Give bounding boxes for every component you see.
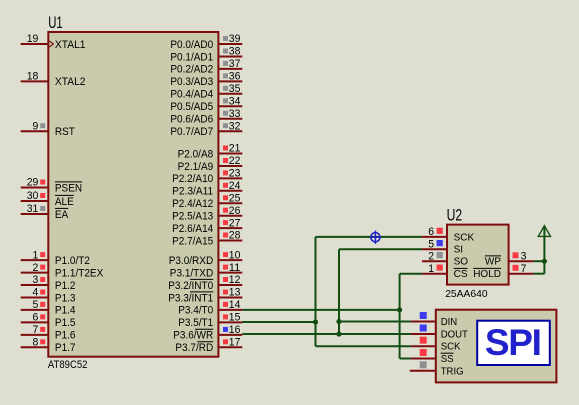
svg-text:P3.6/WR: P3.6/WR [173, 330, 213, 342]
svg-text:9: 9 [33, 120, 39, 132]
label U2 value 25AA640 [445, 289, 488, 300]
svg-text:P2.1/A9: P2.1/A9 [178, 161, 214, 173]
svg-text:24: 24 [229, 180, 241, 192]
power symbol VCC (arrow) [538, 226, 550, 237]
svg-text:XTAL2: XTAL2 [55, 76, 86, 88]
pin 38 P0.1/AD1 (U1 right) [170, 46, 242, 64]
wire to SPI SCK [316, 345, 411, 347]
pin 32 P0.7/AD7 (U1 right) [170, 120, 242, 138]
svg-text:39: 39 [229, 33, 241, 45]
svg-text:P0.2/AD2: P0.2/AD2 [170, 64, 213, 76]
junction dot net SCK at pin15 row [313, 319, 318, 324]
pin 3 P1.2 (U1 left) [21, 274, 76, 292]
svg-text:EA: EA [55, 209, 69, 221]
svg-text:P2.2/A10: P2.2/A10 [172, 173, 213, 185]
wire to U2 pin6 SCK [316, 236, 423, 238]
svg-text:P0.1/AD1: P0.1/AD1 [170, 51, 213, 63]
pin 6 SCK (U2 left) [422, 226, 474, 243]
svg-text:SCK: SCK [454, 232, 475, 243]
svg-text:4: 4 [33, 287, 39, 299]
svg-text:29: 29 [27, 177, 39, 189]
pin 3 WP (U2 right) [485, 250, 534, 267]
pin 17 P3.7/RD (U1 right) [175, 337, 242, 355]
pin 13 P3.3/INT1 (U1 right) [168, 287, 242, 305]
svg-text:6: 6 [33, 312, 39, 324]
svg-text:1: 1 [33, 249, 39, 261]
svg-text:P0.7/AD7: P0.7/AD7 [170, 126, 213, 138]
svg-text:P2.3/A11: P2.3/A11 [172, 186, 213, 198]
pin DIN (SPI debugger) [411, 312, 457, 328]
wire U2 pin7 HOLD to VCC [534, 273, 545, 275]
pin 37 P0.2/AD2 (U1 right) [170, 58, 242, 76]
wire to U2 pin5 SI [339, 248, 422, 250]
svg-text:18: 18 [27, 71, 39, 83]
wire VCC stem [543, 227, 545, 274]
svg-text:P2.6/A14: P2.6/A14 [172, 223, 213, 235]
wire vertical net SI (x=339) [338, 249, 340, 334]
svg-text:34: 34 [229, 96, 241, 108]
svg-text:P1.6: P1.6 [55, 330, 76, 342]
pin 30 ALE (U1 left) [21, 190, 74, 208]
label U2 reference [447, 205, 463, 224]
svg-text:37: 37 [229, 58, 241, 70]
pin 25 P2.4/A12 (U1 right) [172, 193, 242, 211]
svg-text:1: 1 [428, 263, 434, 275]
label U1 value AT89C52 [48, 359, 88, 371]
svg-text:5: 5 [428, 238, 434, 250]
pin 1 CS (U2 left) [422, 263, 468, 280]
svg-text:3: 3 [521, 250, 527, 262]
pin 39 P0.0/AD0 (U1 right) [170, 33, 242, 51]
svg-text:P1.4: P1.4 [55, 305, 76, 317]
svg-text:35: 35 [229, 83, 241, 95]
svg-text:P0.6/AD6: P0.6/AD6 [170, 114, 213, 126]
svg-text:8: 8 [33, 337, 39, 349]
wire net T0/CS from U1 pin14 [242, 309, 399, 311]
pin 35 P0.4/AD4 (U1 right) [170, 83, 242, 101]
pin 4 P1.3 (U1 left) [21, 287, 76, 305]
IC U2 25AA640 body [447, 225, 509, 285]
svg-text:ALE: ALE [55, 196, 74, 208]
pin SCK (SPI debugger) [411, 337, 461, 353]
svg-text:25AA640: 25AA640 [445, 289, 488, 300]
svg-text:P0.4/AD4: P0.4/AD4 [170, 89, 213, 101]
svg-text:SI: SI [454, 245, 464, 256]
svg-text:23: 23 [229, 168, 241, 180]
svg-text:17: 17 [229, 337, 241, 349]
svg-text:5: 5 [33, 299, 39, 311]
svg-text:P3.5/T1: P3.5/T1 [178, 317, 213, 329]
pin 27 P2.6/A14 (U1 right) [172, 217, 242, 235]
pin 5 SI (U2 left) [422, 238, 463, 255]
svg-text:26: 26 [229, 205, 241, 217]
pin 26 P2.5/A13 (U1 right) [172, 205, 242, 223]
svg-text:7: 7 [33, 324, 39, 336]
svg-text:19: 19 [27, 33, 39, 45]
pin 24 P2.3/A11 (U1 right) [172, 180, 242, 198]
svg-text:P1.3: P1.3 [55, 292, 76, 304]
svg-text:31: 31 [27, 203, 39, 215]
wire U2 pin3 WP to VCC [534, 260, 545, 262]
SPI logo text [485, 322, 541, 363]
svg-text:SPI: SPI [485, 322, 541, 363]
svg-text:38: 38 [229, 46, 241, 58]
pin 7 P1.6 (U1 left) [21, 324, 76, 342]
pin 11 P3.1/TXD (U1 right) [170, 262, 243, 280]
svg-text:HOLD: HOLD [473, 269, 501, 280]
junction dot VCC [542, 259, 547, 264]
probe marker on SCK wire [371, 231, 380, 244]
svg-text:P2.5/A13: P2.5/A13 [172, 211, 213, 223]
pin 19 XTAL1 (U1 left) [21, 33, 86, 51]
svg-text:P2.4/A12: P2.4/A12 [172, 198, 213, 210]
pin 16 P3.6/WR (U1 right) [173, 324, 242, 342]
svg-text:DOUT: DOUT [441, 330, 468, 341]
svg-text:XTAL1: XTAL1 [55, 39, 86, 51]
pin 21 P2.0/A8 (U1 right) [178, 143, 243, 161]
pin 28 P2.7/A15 (U1 right) [172, 230, 242, 248]
pin 22 P2.1/A9 (U1 right) [178, 155, 243, 173]
pin 10 P3.0/RXD (U1 right) [169, 249, 243, 267]
svg-text:30: 30 [27, 190, 39, 202]
svg-text:P3.2/INT0: P3.2/INT0 [168, 280, 213, 292]
svg-text:36: 36 [229, 71, 241, 83]
svg-text:P1.2: P1.2 [55, 280, 76, 292]
svg-text:12: 12 [229, 274, 241, 286]
svg-text:U2: U2 [447, 205, 463, 224]
pin 14 P3.4/T0 (U1 right) [178, 299, 242, 317]
svg-text:SCK: SCK [441, 342, 461, 353]
svg-text:WP: WP [485, 257, 501, 268]
svg-text:7: 7 [521, 263, 527, 275]
svg-text:P3.1/TXD: P3.1/TXD [170, 267, 214, 279]
svg-text:15: 15 [229, 312, 241, 324]
svg-text:P2.0/A8: P2.0/A8 [178, 148, 214, 160]
pin 34 P0.5/AD5 (U1 right) [170, 96, 242, 114]
pin 31 EA (U1 left) [21, 203, 69, 221]
svg-text:25: 25 [229, 193, 241, 205]
pin 1 P1.0/T2 (U1 left) [21, 249, 90, 267]
pin DOUT (SPI debugger) [411, 325, 468, 341]
svg-text:3: 3 [33, 274, 39, 286]
junction dot net CS at pin14 row [397, 307, 402, 312]
pin 5 P1.4 (U1 left) [21, 299, 76, 317]
svg-text:P1.0/T2: P1.0/T2 [55, 255, 90, 267]
svg-text:P1.7: P1.7 [55, 342, 76, 354]
svg-text:SO: SO [454, 257, 469, 268]
pin 12 P3.2/INT0 (U1 right) [168, 274, 242, 292]
svg-text:P3.4/T0: P3.4/T0 [178, 305, 213, 317]
svg-text:21: 21 [229, 143, 241, 155]
svg-text:2: 2 [33, 262, 39, 274]
svg-text:SS: SS [441, 354, 454, 365]
svg-text:P1.1/T2EX: P1.1/T2EX [55, 267, 104, 279]
pin 8 P1.7 (U1 left) [21, 337, 76, 355]
pin 29 PSEN (U1 left) [21, 177, 82, 195]
svg-text:6: 6 [428, 226, 434, 238]
svg-text:P3.3/INT1: P3.3/INT1 [168, 292, 213, 304]
IC U1 AT89C52 body [48, 32, 218, 357]
svg-text:CS: CS [454, 269, 468, 280]
svg-text:P0.3/AD3: P0.3/AD3 [170, 76, 213, 88]
svg-text:22: 22 [229, 155, 241, 167]
svg-text:RST: RST [55, 126, 75, 138]
SPI logo box [477, 321, 550, 365]
svg-text:P2.7/A15: P2.7/A15 [172, 235, 213, 247]
pin 15 P3.5/T1 (U1 right) [178, 312, 242, 330]
pin TRIG (SPI debugger) [410, 361, 464, 377]
label U1 reference [48, 14, 63, 32]
svg-text:AT89C52: AT89C52 [48, 359, 88, 371]
pin 2 SO (U2 left) [422, 250, 468, 267]
svg-text:2: 2 [428, 250, 434, 262]
pin 6 P1.5 (U1 left) [21, 312, 76, 330]
wire to U2 pin1 CS [400, 273, 422, 275]
svg-text:33: 33 [229, 108, 241, 120]
pin 18 XTAL2 (U1 left) [21, 71, 86, 89]
svg-text:10: 10 [229, 249, 241, 261]
svg-text:P3.0/RXD: P3.0/RXD [169, 255, 214, 267]
wire net T1/SCK from U1 pin15 [242, 321, 315, 323]
pin 36 P0.3/AD3 (U1 right) [170, 71, 242, 89]
svg-text:P0.5/AD5: P0.5/AD5 [170, 101, 213, 113]
wire vertical net SCK (x=315.5) [315, 237, 317, 346]
svg-text:P0.0/AD0: P0.0/AD0 [170, 39, 213, 51]
junction dot net SI at DIN row [336, 319, 341, 324]
junction dot net SI at DOUT row [336, 331, 341, 336]
svg-text:32: 32 [229, 120, 241, 132]
svg-text:PSEN: PSEN [55, 182, 82, 194]
pin 23 P2.2/A10 (U1 right) [172, 168, 242, 186]
wire net WR/SI from U1 pin16 to SPI DOUT [242, 333, 410, 335]
svg-text:14: 14 [229, 299, 241, 311]
pin 2 P1.1/T2EX (U1 left) [21, 262, 104, 280]
pin 9 RST (U1 left) [21, 120, 76, 138]
pin 7 HOLD (U2 right) [473, 263, 533, 280]
svg-text:28: 28 [229, 230, 241, 242]
svg-text:P1.5: P1.5 [55, 317, 76, 329]
wire to SPI SS [400, 358, 411, 360]
svg-text:TRIG: TRIG [441, 366, 464, 377]
svg-text:11: 11 [229, 262, 241, 274]
svg-text:U1: U1 [48, 14, 63, 32]
wire vertical net CS (x=399.6) [399, 274, 401, 359]
svg-text:13: 13 [229, 287, 241, 299]
wire branch to SPI DIN [339, 321, 411, 323]
pin SS (SPI debugger) [411, 349, 454, 365]
svg-text:27: 27 [229, 217, 241, 229]
svg-text:P3.7/RD: P3.7/RD [175, 342, 213, 354]
pin 33 P0.6/AD6 (U1 right) [170, 108, 242, 126]
SPI debugger body [436, 310, 557, 383]
svg-text:16: 16 [229, 324, 241, 336]
svg-text:DIN: DIN [441, 317, 458, 328]
